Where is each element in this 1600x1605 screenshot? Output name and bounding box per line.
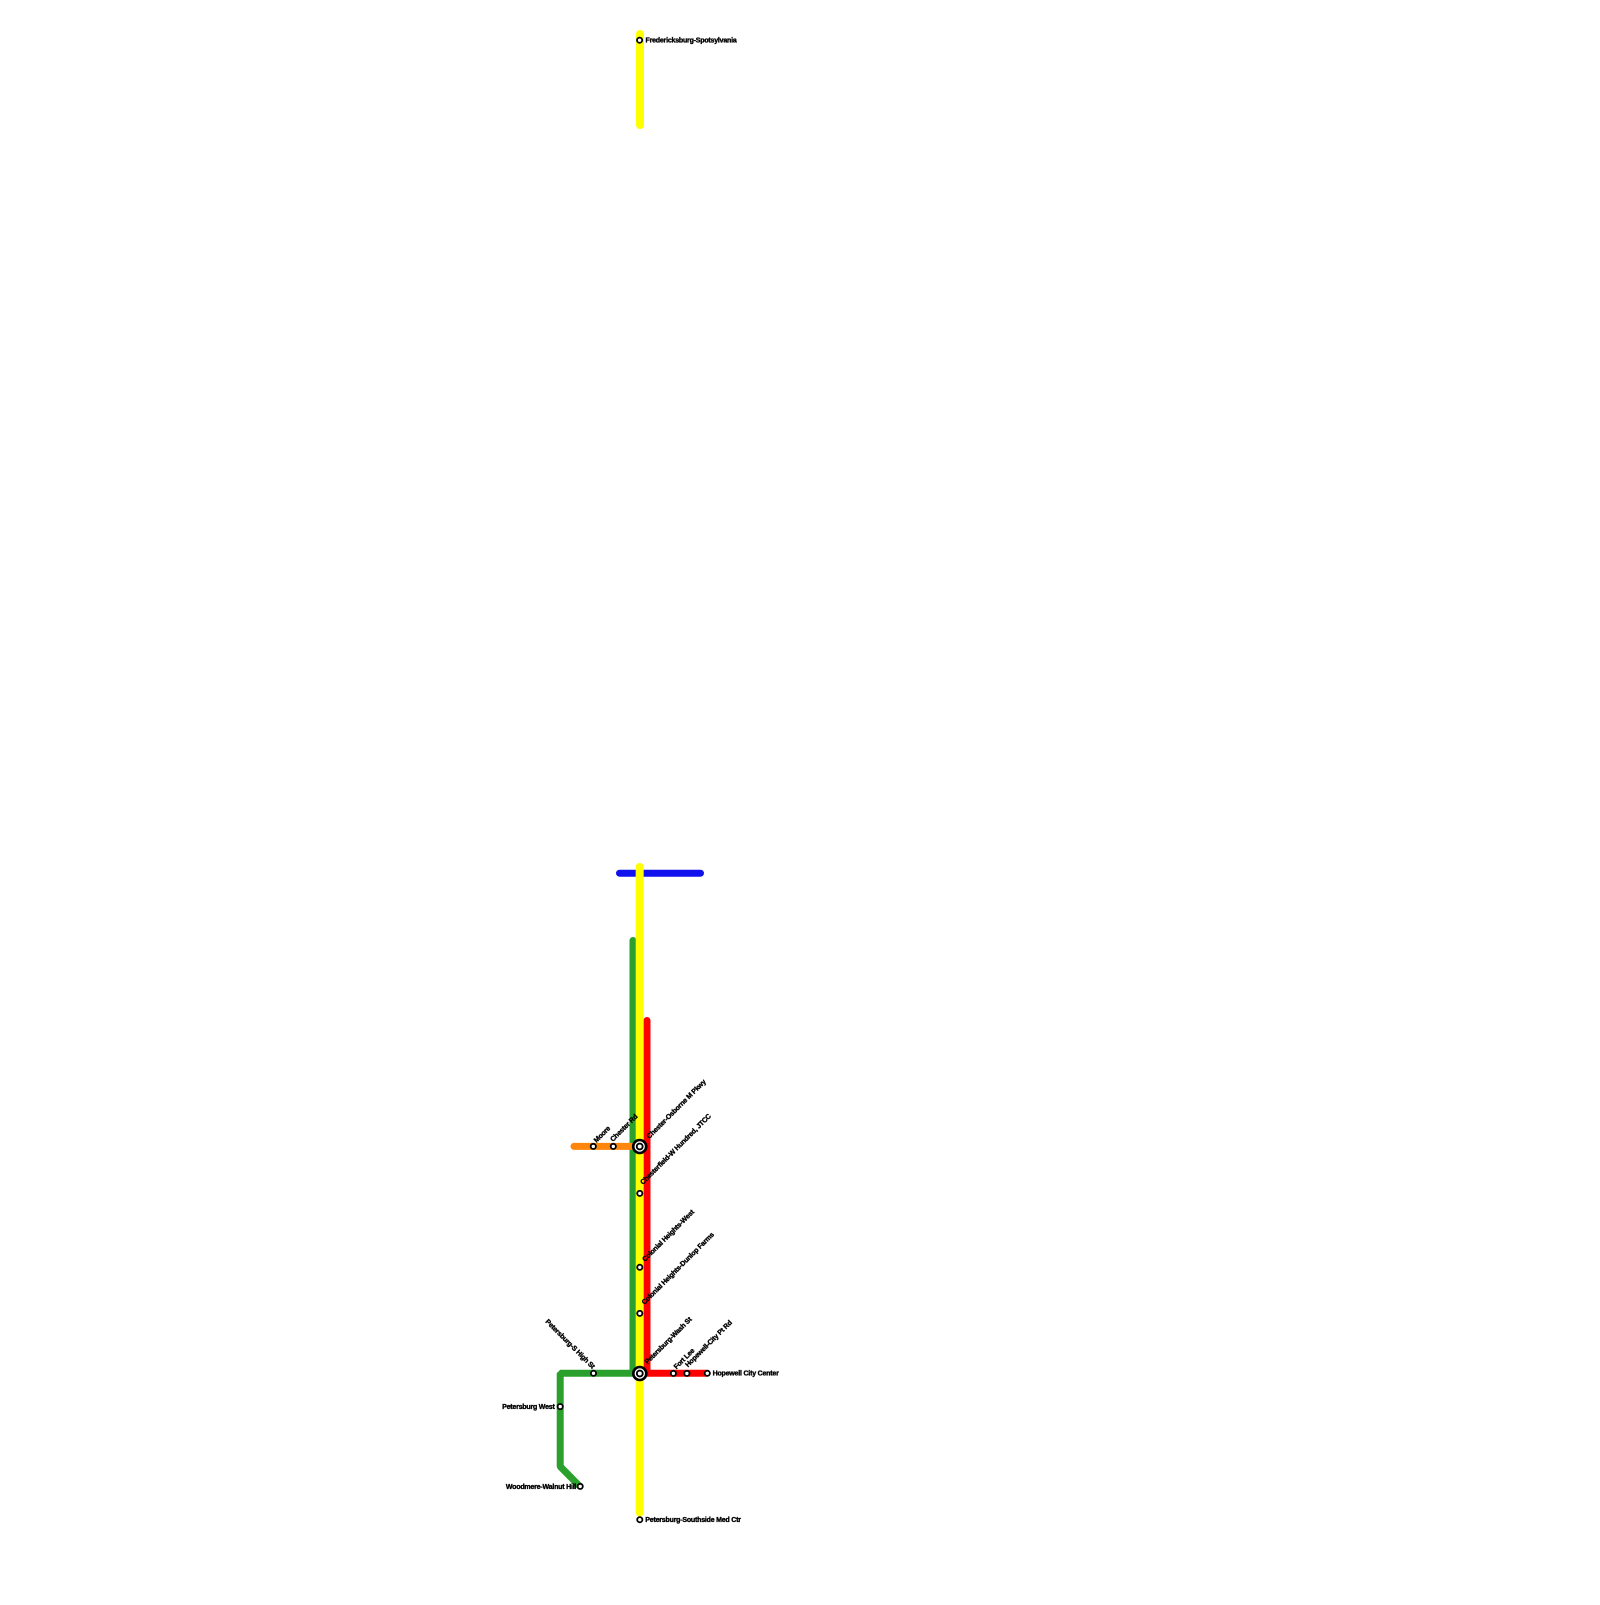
svg-text:Fredericksburg-Spotsylvania: Fredericksburg-Spotsylvania xyxy=(646,38,737,45)
station Fredericksburg-Spotsylvania xyxy=(637,38,642,43)
interchange Chester xyxy=(633,1140,646,1153)
station Petersburg West xyxy=(558,1404,563,1409)
orange line xyxy=(574,1143,637,1150)
station Chester-W Hundred Rd xyxy=(637,1191,642,1196)
yellow line main segment xyxy=(636,867,644,1513)
svg-text:Hopewell City Center: Hopewell City Center xyxy=(713,1371,779,1378)
station orange 2 (Chester Rd) xyxy=(611,1144,616,1149)
svg-text:Petersburg West: Petersburg West xyxy=(502,1404,555,1411)
station Woodmere-Walnut Hill xyxy=(578,1484,583,1489)
station green west (Petersburg-High St) xyxy=(591,1371,596,1376)
interchange Petersburg hub xyxy=(633,1367,646,1380)
red line (Hopewell branch) xyxy=(647,1021,707,1374)
station Hopewell City Center xyxy=(705,1371,710,1376)
station Colonial Heights S xyxy=(637,1311,642,1316)
green line (Woodmere branch) xyxy=(560,941,633,1486)
blue line xyxy=(620,870,701,877)
station Hopewell-City Pt Rd xyxy=(684,1371,689,1376)
station Colonial Heights xyxy=(637,1265,642,1270)
station orange 1 (Enon) xyxy=(591,1144,596,1149)
svg-text:Woodmere-Walnut Hill: Woodmere-Walnut Hill xyxy=(506,1484,577,1491)
station Petersburg-Southside Med Ctr xyxy=(637,1517,642,1522)
yellow line top segment xyxy=(636,34,644,125)
station Fort Lee xyxy=(671,1371,676,1376)
svg-text:Petersburg-Southside Med Ctr: Petersburg-Southside Med Ctr xyxy=(645,1517,741,1524)
